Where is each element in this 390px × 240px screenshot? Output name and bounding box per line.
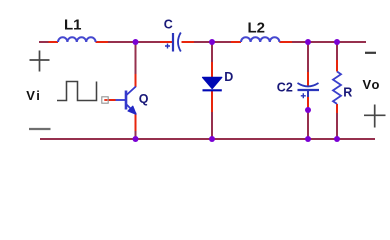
wire C right pin: [182, 41, 195, 43]
svg-text:D: D: [224, 70, 233, 84]
svg-text:C: C: [164, 18, 173, 32]
junction node: bottom at Q: [133, 136, 139, 142]
svg-text:Vo: Vo: [363, 77, 381, 92]
plus sign (input): [30, 51, 50, 72]
label Q: [139, 92, 149, 106]
wire R branch: [336, 42, 338, 139]
label Vo: [363, 77, 381, 92]
inductor L2: [241, 37, 279, 42]
transistor Q: [126, 87, 136, 115]
junction node: top at C2: [305, 39, 311, 45]
junction node: bottom at D: [209, 136, 215, 142]
wire Q emitter branch: [135, 113, 137, 139]
minus sign (output): [365, 52, 376, 54]
wire C2 branch: [307, 42, 309, 139]
svg-text:L1: L1: [64, 17, 82, 34]
junction node: below C2: [305, 107, 311, 113]
label D: [224, 70, 233, 84]
wire Q collector branch: [135, 42, 137, 87]
junction node: bottom at R: [334, 136, 340, 142]
wire L1 right pin: [96, 41, 108, 43]
wire top rail: [39, 41, 366, 43]
wire L2 right pin: [279, 41, 292, 43]
port square (gate drive input): [102, 97, 108, 103]
resistor R: [333, 72, 341, 104]
wire L1 left pin: [49, 41, 59, 43]
junction node: top after C: [209, 39, 215, 45]
label R: [343, 85, 352, 99]
label Vi: [26, 88, 41, 103]
junction node: top at R: [334, 39, 340, 45]
junction node: top after L1: [133, 39, 139, 45]
capacitor C2: [298, 83, 320, 98]
label C: [164, 18, 173, 32]
svg-text:R: R: [343, 85, 352, 99]
inductor L1: [58, 37, 96, 42]
label L2: [248, 20, 266, 37]
svg-text:Vi: Vi: [26, 88, 41, 103]
plus sign (output): [364, 105, 386, 128]
wire L2 left pin: [231, 41, 241, 43]
svg-text:Q: Q: [139, 92, 149, 106]
capacitor C: [165, 33, 181, 52]
label C2: [277, 81, 293, 95]
wire D branch: [211, 42, 213, 139]
wire Q base lead: [105, 99, 126, 101]
wire C left pin: [160, 41, 172, 43]
diode D: [203, 77, 222, 90]
junction node: bottom at C2: [305, 136, 311, 142]
wire bottom rail: [40, 138, 375, 140]
label L1: [64, 17, 82, 34]
svg-text:C2: C2: [277, 81, 293, 95]
square wave source symbol: [57, 82, 97, 101]
minus sign (input): [29, 128, 51, 130]
svg-text:L2: L2: [248, 20, 266, 37]
